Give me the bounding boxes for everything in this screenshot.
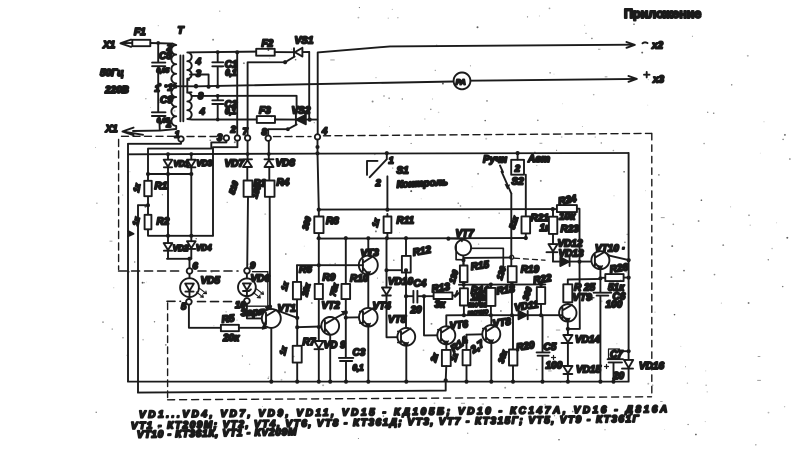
node VT10 collector right column [627,258,631,262]
transformer secondary upper [187,52,193,80]
svg-text:20: 20 [410,305,423,316]
svg-text:1к: 1к [278,345,289,356]
svg-text:VT4: VT4 [373,301,392,312]
svg-text:6: 6 [193,261,199,272]
svg-text:R15: R15 [470,259,490,273]
svg-text:F3: F3 [259,106,271,117]
node R1 top [146,172,150,176]
node pin4 lower [316,145,320,149]
wire lower tap3 to VS2 [192,96,297,114]
svg-text:S2: S2 [512,177,525,188]
mech link circle S2-R15 [510,255,514,259]
svg-text:4: 4 [195,57,202,68]
ground bus [128,381,629,383]
svg-text:R9: R9 [323,273,336,284]
transistor VT3 [359,238,380,308]
node VS2 out [308,118,312,122]
node VD1 bottom [166,172,170,176]
svg-text:x2: x2 [651,41,664,52]
svg-text:T9: T9 [580,293,592,304]
svg-text:1к: 1к [131,215,142,226]
resistor R22 [521,273,553,317]
dashed border left [118,140,120,270]
node R16 bottom [462,313,466,317]
svg-text:R12: R12 [412,245,432,259]
svg-text:R5: R5 [221,313,235,325]
switch S2 [483,151,550,194]
svg-text:C5: C5 [544,342,557,353]
svg-text:2: 2 [514,164,521,175]
resistor R13 [424,282,452,311]
svg-text:Ручн: Ручн [483,155,507,166]
thyristor VS1 [294,36,314,57]
svg-text:VS1: VS1 [295,36,314,47]
secondary pin labels 3 4 [198,91,206,118]
transistor VT10 [591,244,628,293]
VS1 gate wire to pin7 column [248,57,295,135]
diode VD9 [314,340,346,382]
wire pin7 down [247,141,249,160]
svg-text:2: 2 [375,178,382,189]
svg-text:VT6: VT6 [449,319,469,332]
svg-text:R4: R4 [277,178,290,189]
diode VD4 [187,241,212,259]
wire VT3 base line [297,264,363,266]
wire R15 top link [464,258,510,266]
svg-text:S1: S1 [397,166,410,177]
wire to VT2 base [297,326,321,329]
svg-text:VT10 ·: VT10 · [595,244,625,255]
node R19 col feedback [510,313,514,317]
wire pin2 jog down [213,141,237,236]
node secondary mid junction [194,84,199,89]
mech link dashes [515,258,546,260]
node VD4 top [189,234,193,238]
resistor R12 [402,236,433,328]
wire VD10-R12 tie [387,269,407,271]
dashed line through pins 5 10 [167,300,237,302]
svg-text:R19: R19 [521,265,540,276]
left wire column A [127,144,129,382]
svg-text:VD8: VD8 [276,158,296,169]
transformer primary winding [160,44,176,131]
resistor R21 [508,175,551,240]
svg-text:VD16: VD16 [639,361,664,372]
resistor R10 [328,274,368,300]
node VD13-R24 junction [577,260,581,264]
svg-text:220В: 220В [104,85,129,96]
svg-text:1: 1 [175,130,180,141]
terminal X1 top [102,40,150,51]
terminal X1 bottom [105,124,160,135]
svg-text:130: 130 [495,265,508,281]
wire VD2-VD4 bottom tie [167,258,191,260]
wire C4 node to VT6 base [424,296,437,335]
node R15-R16 on rail [462,283,466,287]
svg-text:1: 1 [389,156,394,167]
rail mid (emitter rail) [459,283,545,285]
svg-text:0,1: 0,1 [353,364,365,373]
resistor R4 [250,178,290,307]
wire lower pin to F3 [192,119,257,121]
transistor VT8 [482,315,512,381]
LED VD5 [180,274,220,299]
capacitor C7 [605,349,629,382]
resistor R19 [495,194,539,287]
node VT4 emitter bus [366,380,370,384]
node VT1 collector right [295,316,299,320]
transformer secondary lower [187,92,192,119]
svg-text:1к: 1к [280,280,291,291]
svg-text:C8: C8 [159,51,172,62]
node above pin6 [188,257,192,261]
capacitor C1 [212,50,238,88]
wire VT9 emitter to R24 column [568,262,580,329]
pin 2 [230,125,241,141]
svg-text:VS2: VS2 [292,106,311,117]
svg-text:VD13: VD13 [559,249,584,260]
svg-text:36к: 36к [497,348,510,364]
wire to pin6 [189,259,191,269]
svg-text:8: 8 [262,127,268,138]
wire R17 top to VT8 base [467,333,482,335]
resistor R14 [429,335,471,380]
diode VD10 [382,238,413,337]
node VT9 emitter [566,327,570,331]
capacitor C4 [406,279,427,317]
svg-text:0,1: 0,1 [225,69,237,78]
svg-text:5: 5 [181,302,187,313]
node rail main R8 [315,151,319,155]
node (F1/C8 junction) [156,41,160,45]
svg-text:510: 510 [227,179,240,195]
resistor R2 [131,215,213,236]
resistor R9 [300,238,336,341]
svg-text:VT5: VT5 [388,315,407,326]
wire mid tap to PA [166,79,454,93]
svg-text:300: 300 [301,215,313,231]
svg-text:F1: F1 [134,27,146,38]
resistor R1 [132,174,168,215]
svg-text:C3: C3 [353,348,366,359]
svg-text:F2: F2 [262,39,274,50]
dashed border right [651,133,653,396]
fuse F3 [257,106,296,123]
resistor R11 [370,208,414,241]
terminal x3 [629,72,665,86]
wire tap3 down to midline [195,74,208,86]
svg-text:100: 100 [606,300,623,311]
svg-text:Контроль: Контроль [396,177,448,191]
wire VS1 down tie [308,52,310,120]
node VS1 gate [283,60,287,64]
node gate junction [286,127,290,131]
left wire column B [137,205,139,392]
wire pin3 to R1 column [148,141,226,174]
transformer core [180,56,183,122]
wire pin1 to left rail [128,142,181,144]
resistor R20 [497,315,536,381]
transistor VT5 [388,315,415,382]
svg-text:R20: R20 [516,340,536,354]
wiper arrow R13 to R16 [452,291,459,297]
dashed connector line top [122,133,652,136]
svg-text:C7: C7 [610,350,623,361]
pin 9 [244,261,256,274]
svg-text:VT10 - КТ361К, VT1 - КV209М: VT10 - КТ361К, VT1 - КV209М [137,427,297,441]
svg-text:VD15: VD15 [576,365,601,376]
svg-text:2: 2 [230,125,237,136]
diode VD11 [514,299,540,319]
transistor VT6 [437,319,469,350]
pin 10 [235,298,250,311]
svg-text:VT8: VT8 [492,316,512,330]
diode VD8 [265,152,296,180]
svg-text:1к: 1к [132,182,143,193]
main rail (rectified) [128,153,629,154]
resistor R6 [280,265,313,318]
wire pin4 column down to main rail [317,140,319,154]
diode VD7 [225,152,253,180]
svg-text:R26: R26 [609,262,629,276]
resistor R16 trimmer [460,286,490,318]
box around VD6 [247,272,268,307]
svg-text:X1: X1 [102,40,116,51]
wire feedback line [464,314,559,316]
svg-text:4: 4 [321,126,328,137]
dashed line through pins 6 9 [119,270,238,272]
capacitor C5 [537,315,563,381]
wire VT1 collector to R7 node [276,310,297,318]
svg-text:130: 130 [448,268,461,284]
node C7 branch [627,349,631,353]
resistor R23 [549,209,579,244]
wire pin5 down to R5 [189,305,221,328]
transistor VT2 [321,301,346,382]
svg-text:X1: X1 [105,124,119,135]
node VT1 collector top [268,305,272,309]
ammeter PA [454,73,471,90]
pin 1 [175,130,184,142]
resistor R24 [551,194,580,262]
svg-text:Авт: Авт [527,154,550,165]
wire R8 top column [318,153,319,209]
svg-text:VT3: VT3 [360,248,379,260]
svg-text:VD4: VD4 [196,244,212,253]
pin 7 [243,127,251,141]
wire VD2/VD4 columns [168,174,191,243]
svg-text:VD 9: VD 9 [324,340,347,351]
secondary pin labels 4 3 [190,57,202,80]
svg-text:R1: R1 [155,181,168,192]
svg-text:VT1: VT1 [278,304,297,315]
capacitor C8 [152,43,172,85]
pin 6 [187,261,199,274]
svg-text:7: 7 [243,127,249,138]
svg-text:VD3: VD3 [197,159,213,168]
pin 3 [217,133,229,144]
svg-text:VD11: VD11 [514,299,540,313]
svg-text:VT7: VT7 [456,229,475,240]
terminal x2 [627,41,664,52]
fuse F2 [256,39,294,56]
pin 5 [181,299,192,313]
resistor R18 [473,283,516,318]
resistor R5 [221,313,263,344]
wire secondary top to F2 [194,51,257,54]
rail measurement [319,208,553,211]
resistor R25 [563,279,600,305]
node VT10 emitter / R25 [598,276,602,280]
svg-text:51к: 51к [508,214,521,230]
dashed border inner-left [167,303,169,400]
zener VD12 [547,239,583,262]
svg-text:C4: C4 [414,279,427,290]
svg-text:0,05: 0,05 [157,68,170,75]
capacitor C3 column [339,236,366,382]
node VD2 top [166,234,170,238]
zener VD15 [563,365,601,382]
wire PA to x3 [470,79,635,81]
svg-text:50Гц: 50Гц [100,68,124,79]
pin 4 [315,126,328,140]
svg-text:x3: x3 [652,75,665,86]
svg-text:R23: R23 [561,224,580,235]
wire VD1-VD3 cathode tie [148,173,191,175]
svg-text:4: 4 [199,107,206,118]
diode VD13 [553,249,594,267]
diode VD1 [164,152,190,174]
VS2 gate wire to terminal 8 [268,125,296,136]
svg-text:1к: 1к [370,217,381,228]
node R1-R2 junction [146,203,150,207]
resistor R3 [227,179,266,269]
rail bias [318,237,526,240]
svg-text:3к: 3к [435,300,447,311]
thyristor VS2 [292,106,318,125]
svg-text:100: 100 [546,361,563,372]
svg-text:R8: R8 [326,216,339,227]
wire pin2 column up [236,52,238,135]
node 1-1 mid junction [155,83,173,95]
return wire lower [138,380,446,392]
wire VT6 collector [446,315,464,327]
wire pin10 to VT1 base [247,304,262,319]
transistor VT9 [559,293,593,329]
svg-text:VD14: VD14 [575,335,600,346]
bus junction dots [269,378,615,383]
switch S1 [367,151,448,210]
wire VT4 base [346,316,360,318]
direction tick on column A [128,231,134,236]
svg-text:2к: 2к [429,351,441,364]
LED VD6 [238,274,270,298]
svg-text:20к: 20к [222,333,240,344]
node C4-R13 [422,294,426,298]
resistor R15 [448,259,491,288]
zener VD16 [622,351,664,381]
svg-text:9: 9 [250,261,256,272]
svg-text:VD10: VD10 [388,277,413,288]
zener VD14 [562,329,601,366]
right feed column [628,153,630,351]
fuse F1 [132,27,172,46]
capacitor C2 [212,94,237,121]
diode VD3 [187,152,213,174]
transistor VT1 [262,304,296,382]
svg-text:75к: 75к [328,282,340,298]
resistor R17 [449,335,487,382]
capacitor C6 [590,292,626,382]
wire to x2 [318,45,634,135]
wire pin8 down [268,141,270,159]
pin 8 [262,127,271,141]
diode VD2 [164,243,189,259]
resistor R8 [301,208,339,241]
svg-text:10к: 10к [559,212,576,223]
resistor R26 [600,262,630,293]
capacitor C9 [152,86,173,131]
svg-text:T: T [178,26,185,37]
svg-text:R7: R7 [303,337,316,348]
svg-text:PA: PA [456,77,466,86]
wire junction to column B [138,204,148,206]
svg-text:0,1: 0,1 [225,107,237,116]
svg-text:VD7: VD7 [225,159,245,170]
node VT3 on bias rail [366,236,370,240]
wire R19 column to feedback line [511,285,513,316]
transistor VT4 [359,301,391,382]
resistor R7 [278,337,316,363]
transistor VT7 [446,229,505,272]
svg-text:VD5: VD5 [201,276,221,287]
dashed border bottom [168,397,652,400]
node VD3 bottom [189,172,193,176]
node VT2 base tee [295,325,299,329]
wire R7 column [296,318,298,382]
svg-text:R11: R11 [397,216,415,227]
svg-text:360: 360 [521,285,534,301]
svg-text:Приложение: Приложение [624,7,701,21]
